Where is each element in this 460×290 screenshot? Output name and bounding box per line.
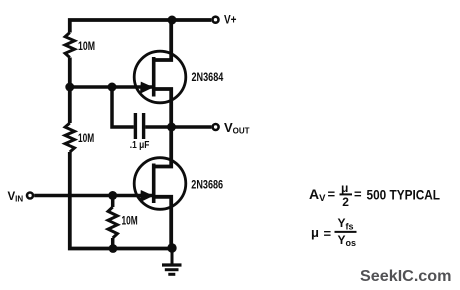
svg-text:Yos: Yos bbox=[338, 233, 357, 248]
wire Vin terminal to gate of Q2 bbox=[34, 194, 152, 198]
svg-text:2: 2 bbox=[342, 195, 349, 209]
svg-text:SeekIC.com: SeekIC.com bbox=[360, 268, 452, 285]
svg-text:500 TYPICAL: 500 TYPICAL bbox=[367, 186, 441, 202]
svg-text:μ: μ bbox=[341, 181, 348, 195]
wire gate of Q1 to left rail bbox=[70, 85, 153, 89]
svg-text:V+: V+ bbox=[224, 15, 237, 27]
node dot: Vin wire / R3 top bbox=[108, 191, 117, 200]
transistor Q2 2N3686 (n-channel JFET) bbox=[134, 127, 186, 249]
wire R3 top lead bbox=[111, 196, 115, 208]
svg-text:10M: 10M bbox=[122, 214, 138, 228]
svg-text:=: = bbox=[354, 187, 362, 202]
svg-text:AV: AV bbox=[309, 186, 326, 204]
transistor Q1 2N3684 (n-channel JFET) bbox=[134, 20, 186, 127]
node dot: gate wire / capacitor branch bbox=[108, 83, 117, 92]
svg-text:=: = bbox=[324, 226, 332, 241]
equation Av = mu/2 = 500 TYPICAL bbox=[309, 181, 440, 209]
terminal Vin bbox=[27, 193, 33, 199]
resistor R2 10M bbox=[65, 123, 74, 152]
node dot: top rail / Q1 drain bbox=[168, 16, 177, 25]
svg-text:VOUT: VOUT bbox=[224, 120, 250, 136]
node dot: left rail / Q1 gate wire bbox=[65, 83, 74, 92]
terminal V+ bbox=[213, 17, 219, 23]
wire left rail between R1 and R2 bbox=[68, 58, 72, 124]
node dot: Vout node bbox=[167, 123, 176, 132]
svg-text:VIN: VIN bbox=[8, 191, 24, 204]
capacitor C1 .1 uF bbox=[135, 113, 143, 139]
wire R3 bottom lead bbox=[111, 238, 115, 249]
equation mu = Yfs/Yos bbox=[311, 216, 357, 248]
wire Vout node to Vout terminal bbox=[172, 125, 212, 129]
svg-text:10M: 10M bbox=[78, 39, 95, 53]
wire capacitor branch from gate node down then right to C1 bbox=[112, 87, 134, 127]
node dot: bottom wire / R3 bottom bbox=[109, 244, 118, 253]
svg-text:=: = bbox=[328, 187, 336, 202]
resistor R3 10M bbox=[108, 207, 117, 238]
resistor R1 10M bbox=[65, 33, 74, 58]
svg-text:10M: 10M bbox=[78, 131, 94, 145]
svg-text:Yfs: Yfs bbox=[338, 216, 354, 231]
svg-text:2N3686: 2N3686 bbox=[191, 177, 223, 191]
svg-text:2N3684: 2N3684 bbox=[192, 70, 224, 84]
ground bbox=[162, 248, 182, 274]
wire left rail from R2 down and bottom wire to ground node bbox=[70, 152, 172, 249]
svg-text:.1 μF: .1 μF bbox=[130, 140, 150, 151]
node dot: bottom wire / Q2 source / ground bbox=[167, 243, 176, 252]
terminal Vout bbox=[213, 124, 219, 130]
svg-text:μ: μ bbox=[311, 225, 319, 240]
wire C1 right plate to Vout node bbox=[145, 125, 171, 129]
wire top rail from left rail to V+ terminal bbox=[70, 20, 212, 33]
